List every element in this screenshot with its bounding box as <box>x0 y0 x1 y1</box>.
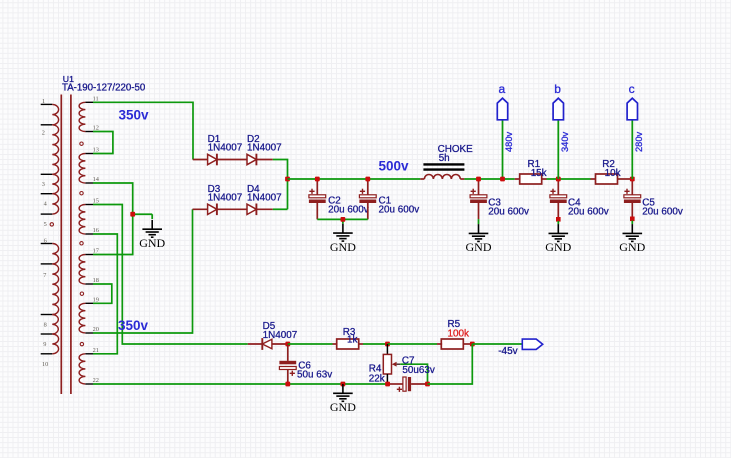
transformer U1 pin 15 stub <box>85 204 93 206</box>
transformer U1 pin number 12 <box>93 125 99 132</box>
wire D2 output down <box>273 160 288 210</box>
capacitor C7 50u63v <box>388 377 428 392</box>
svg-text:1N4007: 1N4007 <box>247 192 282 203</box>
diode D4 1N4007 <box>247 204 273 216</box>
transformer U1 pin number 6 <box>44 238 47 245</box>
transformer U1 pin number 9 <box>43 341 46 348</box>
svg-text:7: 7 <box>43 272 46 279</box>
transformer U1 pin 4 stub <box>41 193 53 195</box>
transformer polarity dot <box>80 192 83 195</box>
svg-text:22: 22 <box>93 377 99 384</box>
svg-text:20u 600v: 20u 600v <box>379 205 420 216</box>
flag a <box>497 98 507 120</box>
transformer U1 pin 20 stub <box>85 332 93 334</box>
junction C7 right <box>425 382 430 387</box>
svg-text:GND: GND <box>619 240 645 254</box>
wire rail to R5 out <box>428 344 473 384</box>
wire R1 to b node <box>547 178 591 180</box>
transformer U1 pin 6 stub <box>41 243 53 245</box>
transformer U1 label U1 <box>63 74 74 84</box>
svg-text:480v: 480v <box>504 131 514 152</box>
wire R4 wiper to rail <box>400 364 427 384</box>
transformer U1 pin 3 stub <box>41 173 53 175</box>
wire pin11 to D1 <box>93 102 193 159</box>
label R5 <box>448 319 461 330</box>
label C4 <box>568 197 581 208</box>
pin end C5 <box>630 217 635 222</box>
junction c node <box>630 177 635 182</box>
transformer polarity dot <box>80 242 83 245</box>
wire bottom rail pin22 <box>93 383 288 385</box>
transformer U1 pin number 7 <box>43 272 46 279</box>
transformer polarity dot <box>80 342 83 345</box>
value 20u 600v of C5 <box>642 207 683 218</box>
junction R3-R4 <box>385 342 390 347</box>
pin end C4 <box>556 217 561 222</box>
capacitor C6 50u 63v <box>279 344 296 384</box>
svg-text:1: 1 <box>42 98 45 105</box>
wire pin15 to D5 <box>93 205 248 345</box>
svg-text:1N4007: 1N4007 <box>208 192 243 203</box>
transformer U1 primary winding arcs <box>52 264 58 315</box>
transformer U1 primary winding arcs <box>52 104 58 124</box>
wire 500v bus right <box>464 178 514 180</box>
label D2 <box>247 134 260 145</box>
value 20u 600v of C1 <box>379 205 420 216</box>
wire R3 to R4 node <box>363 343 388 345</box>
svg-text:GND: GND <box>330 240 356 254</box>
transformer U1 pin 7 stub <box>41 263 53 265</box>
ground GND bottom rail <box>330 384 356 414</box>
svg-text:GND: GND <box>545 240 571 254</box>
transformer U1 secondary winding arcs <box>79 255 85 285</box>
transformer U1 pin number 2 <box>42 129 45 136</box>
junction R5 out <box>470 342 475 347</box>
diode D5 1N4007 <box>248 338 288 350</box>
svg-text:20: 20 <box>93 326 99 333</box>
wire R4 node to R5 <box>388 343 438 345</box>
diode D2 1N4007 <box>247 154 273 166</box>
wire C5 pin to ground <box>631 221 633 225</box>
label C5 <box>642 197 655 208</box>
label D4 <box>247 184 260 195</box>
svg-text:350v: 350v <box>119 107 150 122</box>
svg-text:15: 15 <box>93 198 99 205</box>
svg-text:9: 9 <box>43 341 46 348</box>
resistor R5 100k <box>437 339 472 349</box>
label R1 <box>528 159 541 170</box>
wire jumper pin18-pin19 <box>93 284 112 303</box>
value 50u63v <box>402 365 434 376</box>
net label -45v <box>498 346 517 357</box>
transformer U1 pin 19 stub <box>85 302 93 304</box>
net label 480v <box>504 131 514 152</box>
svg-text:5: 5 <box>44 221 47 228</box>
junction C3 top <box>476 177 481 182</box>
svg-text:15k: 15k <box>531 168 547 179</box>
transformer U1 pin 12 stub <box>85 131 93 133</box>
label R2 <box>602 159 615 170</box>
wire output a <box>502 120 504 179</box>
junction C6 bottom <box>285 382 290 387</box>
value 20u 600v of C2 <box>328 205 369 216</box>
svg-text:GND: GND <box>330 400 356 414</box>
transformer U1 pin number 4 <box>44 201 48 208</box>
svg-text:1N4007: 1N4007 <box>263 330 298 341</box>
svg-text:c: c <box>629 82 635 96</box>
value 15k <box>531 168 547 179</box>
resistor R2 10k <box>591 174 633 184</box>
junction b node <box>556 177 561 182</box>
junction bridge output <box>285 177 290 182</box>
label CHOKE <box>438 144 474 155</box>
value 5h <box>439 153 450 164</box>
svg-text:20u 600v: 20u 600v <box>328 205 369 216</box>
label C6 <box>298 360 311 371</box>
svg-text:280v: 280v <box>634 131 644 152</box>
value 1k <box>347 334 357 345</box>
flag c <box>627 98 637 120</box>
svg-text:1k: 1k <box>347 334 357 345</box>
resistor R3 1k <box>333 339 364 349</box>
transformer U1 pin number 10 <box>42 361 48 368</box>
svg-text:1N4007: 1N4007 <box>208 143 243 154</box>
svg-text:350v: 350v <box>118 318 149 333</box>
capacitor C3 20u 600v <box>470 179 487 219</box>
wire pin14 to ground junction <box>93 183 133 214</box>
wire output c <box>631 120 633 179</box>
transformer U1 pin number 14 <box>93 176 100 183</box>
transformer U1 pin number 11 <box>93 95 99 102</box>
trimmer R4 22k <box>383 344 400 384</box>
transformer U1 pin 8 stub <box>41 314 53 316</box>
label c <box>629 82 635 96</box>
value 10k <box>605 168 621 179</box>
ground GND below C4 <box>545 224 571 254</box>
transformer U1 primary winding arcs <box>52 194 58 214</box>
wire junction to pin17 <box>93 214 133 254</box>
capacitor C4 20u 600v <box>550 179 567 217</box>
transformer U1 pin number 20 <box>93 326 99 333</box>
inductor CHOKE 5h <box>420 164 464 179</box>
transformer polarity dot <box>50 223 53 226</box>
svg-text:11: 11 <box>93 95 99 102</box>
net label 350v lower <box>118 318 149 333</box>
svg-text:19: 19 <box>93 296 99 303</box>
ground GND upper-left <box>139 220 165 250</box>
wire junction to GND <box>133 213 153 215</box>
flag -45v <box>522 339 542 349</box>
wire bottom rail mid <box>288 383 388 385</box>
resistor R1 15k <box>515 174 547 184</box>
svg-text:20u 600v: 20u 600v <box>642 207 683 218</box>
value 1N4007 of D1 <box>208 143 243 154</box>
transformer U1 secondary winding arcs <box>79 354 85 384</box>
net label 340v <box>560 131 570 152</box>
net label 350v upper <box>119 107 150 122</box>
label R4 <box>369 363 382 374</box>
svg-text:20u 600v: 20u 600v <box>568 207 609 218</box>
svg-text:-45v: -45v <box>498 346 517 357</box>
junction C1 top <box>365 177 370 182</box>
transformer U1 pin 17 stub <box>85 254 93 256</box>
capacitor C5 20u 600v <box>624 179 641 217</box>
wire pin16 to pin21 <box>93 234 117 354</box>
svg-text:21: 21 <box>93 347 99 354</box>
svg-text:TA-190-127/220-50: TA-190-127/220-50 <box>62 82 146 93</box>
transformer U1 primary winding arcs <box>52 315 58 335</box>
transformer U1 pin 11 stub <box>85 101 93 103</box>
svg-text:12: 12 <box>93 125 99 132</box>
label b <box>554 82 561 96</box>
wire GND lead <box>151 214 153 219</box>
transformer polarity dot <box>80 292 83 295</box>
label C7 <box>402 356 415 367</box>
svg-text:18: 18 <box>93 277 99 284</box>
transformer U1 pin number 8 <box>44 321 47 328</box>
value 20u 600v of C4 <box>568 207 609 218</box>
label C3 <box>488 197 501 208</box>
transformer U1 primary winding arcs <box>52 125 58 174</box>
value 50u 63v <box>297 370 332 381</box>
transformer U1 secondary winding arcs <box>79 102 85 131</box>
transformer polarity dot <box>80 142 83 145</box>
label D3 <box>208 184 221 195</box>
transformer U1 primary winding arcs <box>52 334 58 354</box>
value 20u 600v of C3 <box>488 207 529 218</box>
value 1N4007 of D4 <box>247 192 282 203</box>
junction C1-C2 ground <box>341 217 346 222</box>
svg-text:20u 600v: 20u 600v <box>488 207 529 218</box>
label C1 <box>379 195 392 206</box>
svg-text:50u 63v: 50u 63v <box>297 370 332 381</box>
transformer U1 primary winding arcs <box>52 244 58 264</box>
transformer U1 pin 5 stub <box>41 213 53 215</box>
transformer U1 pin number 3 <box>42 181 45 188</box>
diode D1 1N4007 <box>193 154 247 166</box>
transformer U1 pin 16 stub <box>85 233 93 235</box>
wire pin20 to D3 <box>93 209 193 333</box>
transformer U1 pin number 22 <box>93 377 99 384</box>
transformer U1 value TA-190-127/220-50 <box>62 82 146 93</box>
wire output b <box>557 120 559 179</box>
svg-text:6: 6 <box>44 238 47 245</box>
wire R5 out to flag <box>472 343 522 345</box>
transformer U1 pin number 19 <box>93 296 99 303</box>
label D5 <box>263 321 276 332</box>
transformer U1 pin number 16 <box>93 227 99 234</box>
transformer U1 secondary winding arcs <box>79 154 85 184</box>
svg-text:a: a <box>498 82 505 96</box>
junction a <box>500 177 505 182</box>
ground GND below C5 <box>619 224 645 254</box>
wire C3 to ground <box>478 219 480 224</box>
transformer U1 pin 10 stub <box>41 353 53 355</box>
transformer U1 pin 21 stub <box>85 353 93 355</box>
transformer U1 pin number 21 <box>93 347 99 354</box>
transformer U1 pin 18 stub <box>85 283 93 285</box>
junction R4 bottom <box>385 382 390 387</box>
ground GND below C1-C2 <box>330 224 356 254</box>
transformer U1 pin number 13 <box>93 147 99 154</box>
label a <box>498 82 505 96</box>
wire D4 output <box>273 208 288 210</box>
svg-text:5h: 5h <box>439 153 450 164</box>
svg-text:100k: 100k <box>448 329 469 340</box>
svg-text:17: 17 <box>93 248 99 255</box>
transformer U1 pin 2 stub <box>41 124 53 126</box>
transformer U1 core <box>61 95 71 395</box>
transformer U1 pin number 5 <box>44 221 47 228</box>
svg-text:1N4007: 1N4007 <box>247 143 282 154</box>
svg-text:10k: 10k <box>605 168 621 179</box>
transformer U1 secondary winding arcs <box>79 205 85 235</box>
wire D5 node to R3 <box>288 343 333 345</box>
svg-text:22k: 22k <box>369 373 385 384</box>
net label 500v <box>379 159 410 174</box>
value 1N4007 of D5 <box>263 330 298 341</box>
wire C4 pin to ground <box>557 221 559 224</box>
label D1 <box>208 134 221 145</box>
value 22k <box>369 373 385 384</box>
svg-text:14: 14 <box>93 176 100 183</box>
wire C1-C2 bottoms <box>317 219 368 223</box>
ground GND below C3 <box>466 224 492 254</box>
wire jumper pin12-pin13 <box>93 132 113 154</box>
junction rail GND <box>341 382 346 387</box>
svg-text:13: 13 <box>93 147 99 154</box>
capacitor C1 20u 600v <box>359 179 376 219</box>
value 1N4007 of D3 <box>208 192 243 203</box>
junction pins 14-17 <box>130 212 135 217</box>
transformer U1 primary winding arcs <box>52 174 58 193</box>
svg-text:10: 10 <box>42 361 48 368</box>
transformer U1 pin number 17 <box>93 248 99 255</box>
label R3 <box>343 327 356 338</box>
svg-text:16: 16 <box>93 227 99 234</box>
value 1N4007 of D2 <box>247 143 282 154</box>
junction D5 out <box>285 342 290 347</box>
svg-text:b: b <box>554 82 561 96</box>
transformer U1 pin 9 stub <box>41 333 53 335</box>
svg-text:GND: GND <box>466 240 492 254</box>
transformer U1 pin number 1 <box>42 98 45 105</box>
svg-text:8: 8 <box>44 321 47 328</box>
transformer U1 pin number 15 <box>93 198 99 205</box>
svg-text:340v: 340v <box>560 131 570 152</box>
label C2 <box>328 195 341 206</box>
svg-text:GND: GND <box>139 236 165 250</box>
diode D3 1N4007 <box>193 204 248 216</box>
svg-text:50u63v: 50u63v <box>402 365 434 376</box>
transformer U1 pin 14 stub <box>85 182 93 184</box>
transformer U1 pin 22 stub <box>85 383 93 385</box>
transformer U1 pin number 18 <box>93 277 99 284</box>
flag b <box>553 98 563 120</box>
net label 280v <box>634 131 644 152</box>
transformer U1 secondary winding arcs <box>79 303 85 333</box>
wire 500v bus left <box>288 178 421 180</box>
svg-text:500v: 500v <box>379 159 410 174</box>
svg-text:2: 2 <box>42 129 45 136</box>
svg-text:3: 3 <box>42 181 45 188</box>
capacitor C2 20u 600v <box>309 179 326 219</box>
value 100k <box>448 329 469 340</box>
junction C2 top <box>315 177 320 182</box>
transformer U1 pin 13 stub <box>85 153 93 155</box>
transformer U1 pin 1 stub <box>41 103 53 105</box>
